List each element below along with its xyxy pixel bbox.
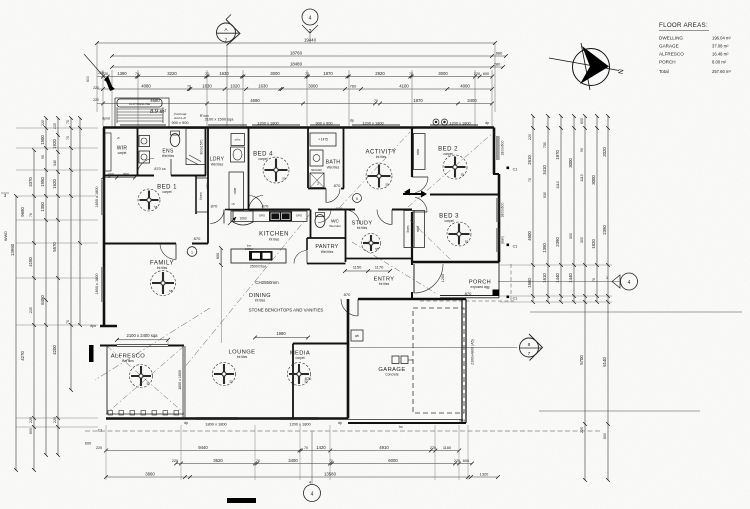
dimension row top segments 2	[103, 88, 492, 90]
svg-text:1980: 1980	[276, 331, 286, 336]
fan media	[288, 363, 311, 386]
svg-text:300: 300	[580, 237, 584, 243]
svg-text:7: 7	[225, 38, 228, 44]
wir shelves	[105, 133, 111, 171]
svg-text:70: 70	[29, 213, 33, 217]
svg-text:900x900: 900x900	[311, 168, 322, 172]
porch pier	[493, 290, 500, 297]
svg-text:870: 870	[334, 183, 341, 188]
svg-text:3620: 3620	[213, 458, 223, 463]
dimension row top 18760	[112, 55, 506, 57]
svg-text:70: 70	[528, 178, 532, 182]
svg-text:70: 70	[374, 99, 378, 103]
svg-text:3400: 3400	[288, 458, 298, 463]
downpipe circles top	[433, 119, 439, 125]
svg-text:1000: 1000	[239, 217, 246, 221]
svg-text:55: 55	[385, 182, 389, 186]
svg-text:dp: dp	[485, 121, 489, 125]
door arc bath	[326, 189, 340, 203]
diagonal activity	[340, 132, 410, 207]
svg-text:1870: 1870	[413, 98, 423, 103]
linen closet	[196, 178, 208, 212]
svg-text:90: 90	[41, 155, 45, 159]
fan bed4	[263, 157, 289, 183]
svg-text:exposed agg: exposed agg	[471, 285, 490, 289]
svg-text:2610: 2610	[527, 155, 532, 165]
right extension lines	[500, 264, 612, 266]
svg-text:3000: 3000	[308, 83, 318, 88]
garage door dashed	[413, 308, 464, 413]
garage walls	[358, 298, 466, 300]
svg-text:1800 x 1800: 1800 x 1800	[95, 187, 99, 208]
door arc pantry	[294, 251, 307, 264]
door arc ens	[137, 159, 154, 176]
svg-text:4: 4	[311, 492, 314, 498]
svg-text:obsd A-4L: obsd A-4L	[174, 116, 187, 120]
circled 5 hall	[353, 194, 362, 203]
wall wir ens bottom	[103, 175, 154, 177]
fan alfresco	[130, 365, 153, 388]
svg-text:4: 4	[628, 280, 631, 286]
svg-text:linen: linen	[199, 192, 203, 199]
door arc bed3	[415, 197, 427, 212]
marker C1 right upper	[507, 167, 510, 170]
wall kitchen west vertical	[225, 209, 249, 211]
wall family step bottom	[100, 325, 117, 327]
window top 1200x1800 activity	[352, 124, 400, 126]
wall bed4 west	[248, 128, 250, 210]
svg-text:13960: 13960	[10, 243, 15, 256]
svg-text:x5: x5	[231, 202, 235, 206]
svg-text:220: 220	[29, 307, 33, 313]
svg-text:600: 600	[580, 118, 584, 124]
wall left exterior	[103, 128, 106, 327]
svg-text:Wet tiles: Wet tiles	[327, 166, 340, 170]
svg-text:13580: 13580	[324, 471, 337, 476]
svg-text:Int tiles: Int tiles	[376, 155, 387, 159]
svg-text:CLOTHESLINE: CLOTHESLINE	[129, 102, 151, 106]
wall lounge media divider	[292, 344, 294, 419]
svg-text:linen: linen	[406, 225, 410, 232]
diagonal bed2	[408, 132, 494, 207]
svg-text:4080: 4080	[141, 83, 151, 88]
alfresco left edge	[106, 346, 108, 415]
clothesline unit	[117, 99, 162, 107]
dim 1150 1170 entry	[345, 270, 390, 272]
svg-text:2020: 2020	[602, 147, 607, 157]
svg-text:dp: dp	[184, 421, 188, 425]
wall bath bottom	[308, 188, 326, 190]
alfresco top wall opening 2100x2400	[100, 345, 117, 347]
svg-text:4000: 4000	[460, 83, 470, 88]
svg-text:19440: 19440	[304, 37, 317, 42]
svg-text:3410: 3410	[542, 165, 547, 175]
svg-text:90: 90	[580, 148, 584, 152]
wall pantry bottom	[307, 263, 346, 265]
svg-text:1: 1	[191, 251, 193, 255]
window left family 1800x1800	[101, 267, 103, 302]
svg-text:680: 680	[496, 50, 503, 55]
svg-text:FLOOR AREAS:: FLOOR AREAS:	[659, 22, 708, 29]
svg-text:220: 220	[172, 459, 178, 463]
wall wc pantry divider	[307, 237, 345, 239]
bottom dashed boundary line	[85, 430, 600, 432]
marker C1 right mid	[507, 244, 510, 247]
diagonal alfresco X1	[107, 346, 184, 413]
svg-text:hc: hc	[399, 425, 403, 429]
door arc hall kitchen	[318, 210, 331, 223]
svg-text:930: 930	[543, 192, 547, 198]
wall ldry hall east	[248, 128, 250, 210]
svg-text:870: 870	[194, 236, 201, 241]
svg-text:220: 220	[98, 71, 104, 75]
left dimension columns	[15, 196, 17, 470]
wall hall west	[207, 128, 209, 244]
door arc activity	[377, 210, 392, 225]
svg-text:6140: 6140	[602, 357, 607, 367]
svg-text:4100: 4100	[399, 83, 409, 88]
alfresco bottom piers	[106, 413, 184, 415]
svg-text:1800x600: 1800x600	[501, 202, 505, 217]
svg-text:2100 x 1500 sqa: 2100 x 1500 sqa	[205, 117, 235, 122]
svg-text:600: 600	[108, 173, 114, 177]
svg-text:340: 340	[53, 160, 57, 166]
window top 2100x1500	[208, 124, 247, 126]
bed3 robe linen	[404, 211, 414, 248]
door arc bed2	[415, 177, 428, 193]
svg-text:18760: 18760	[290, 50, 303, 55]
svg-text:CH2550mm: CH2550mm	[255, 280, 279, 285]
right horizontal line y411	[539, 410, 700, 412]
svg-text:2390: 2390	[555, 237, 560, 247]
svg-text:18480: 18480	[290, 61, 303, 66]
svg-text:Int tiles: Int tiles	[237, 355, 248, 359]
wall study bottom	[346, 258, 413, 260]
svg-text:1390: 1390	[542, 243, 547, 253]
fan study	[362, 234, 381, 253]
right dimension columns	[532, 116, 534, 302]
left extension lines	[16, 127, 98, 129]
svg-text:carpet: carpet	[162, 190, 171, 194]
svg-text:4910: 4910	[379, 445, 389, 450]
window top 1200x1800 bed4	[252, 124, 300, 126]
svg-text:8450: 8450	[40, 295, 45, 305]
svg-text:6000: 6000	[388, 458, 398, 463]
svg-text:3400: 3400	[467, 98, 477, 103]
svg-text:2920: 2920	[375, 71, 385, 76]
window top 1200x1800 bed2	[430, 124, 478, 126]
svg-text:3860: 3860	[145, 471, 155, 476]
wall activity bottom	[330, 209, 355, 211]
svg-text:2: 2	[317, 182, 319, 186]
wall study west	[345, 210, 347, 263]
ldry robe	[229, 172, 244, 210]
wall wc west	[310, 210, 312, 239]
ldry cupboard ohc	[231, 134, 245, 146]
svg-text:oda: oda	[459, 419, 465, 423]
svg-text:4690: 4690	[250, 98, 260, 103]
svg-text:Int tiles: Int tiles	[357, 226, 368, 230]
svg-text:890: 890	[123, 173, 129, 177]
svg-text:1170: 1170	[375, 265, 384, 270]
kitchen island	[231, 249, 286, 263]
svg-text:55: 55	[282, 176, 286, 180]
svg-text:Int tiles: Int tiles	[269, 238, 280, 242]
svg-text:750: 750	[543, 142, 547, 148]
wall ens east	[205, 128, 207, 176]
svg-text:870: 870	[336, 206, 343, 211]
svg-text:1390: 1390	[117, 71, 127, 76]
diagonal bed3	[410, 220, 452, 261]
svg-text:8: 8	[528, 342, 531, 348]
wall right exterior upper	[493, 128, 496, 175]
wall bed4 bath divider	[307, 128, 309, 189]
svg-text:600: 600	[86, 76, 90, 82]
svg-text:Concrete: Concrete	[385, 373, 399, 377]
svg-text:GARAGE: GARAGE	[659, 44, 679, 49]
fan bed3	[447, 222, 471, 246]
entry walls	[411, 262, 413, 265]
svg-text:Wet tiles: Wet tiles	[211, 163, 224, 167]
fan bed1	[138, 189, 160, 211]
svg-text:C1: C1	[98, 429, 103, 433]
dimension row top 18480	[112, 66, 503, 68]
svg-text:870 cs: 870 cs	[154, 167, 165, 171]
svg-text:55: 55	[375, 247, 379, 251]
diagonal entry porch	[352, 242, 437, 294]
section cut line A	[226, 46, 228, 127]
svg-text:70: 70	[256, 459, 260, 463]
svg-text:900 x 900: 900 x 900	[171, 120, 189, 125]
svg-text:1800x600: 1800x600	[501, 140, 505, 155]
wall bed1 bottom	[103, 243, 176, 245]
svg-text:Int tiles: Int tiles	[255, 299, 266, 303]
svg-text:Ext tiles: Ext tiles	[122, 359, 134, 363]
svg-text:GPO: GPO	[296, 214, 303, 218]
grid marker A7 section	[217, 15, 241, 46]
svg-text:3000: 3000	[270, 71, 280, 76]
svg-text:Wet tiles: Wet tiles	[321, 250, 334, 254]
svg-text:870: 870	[211, 204, 218, 209]
wall wir ens divider	[137, 128, 139, 176]
ch dashed line	[184, 214, 310, 368]
svg-text:1800 x 1800: 1800 x 1800	[95, 274, 99, 295]
porch dashed outline	[420, 300, 514, 302]
dimension row top segments 3	[103, 103, 492, 105]
grid marker 4 top	[302, 9, 318, 25]
door arc bed4	[249, 196, 263, 210]
svg-text:1820: 1820	[591, 239, 596, 249]
svg-text:3370: 3370	[28, 177, 33, 187]
study door arc	[346, 210, 360, 224]
svg-text:dpnd: dpnd	[102, 117, 110, 121]
dimension row top 19440	[97, 42, 495, 44]
svg-text:9690: 9690	[20, 207, 25, 217]
wall bed1 east linen	[195, 176, 197, 215]
fan family	[151, 271, 176, 296]
svg-text:2500 b'bar: 2500 b'bar	[250, 265, 267, 269]
bed4 robe	[310, 133, 336, 146]
svg-text:1800 x 1800: 1800 x 1800	[178, 370, 182, 390]
svg-text:4600: 4600	[527, 231, 532, 241]
svg-text:800: 800	[216, 253, 220, 259]
ens fixtures	[139, 136, 150, 147]
circled 1 family	[187, 247, 197, 257]
svg-text:WWD: WWD	[4, 231, 8, 241]
svg-text:600: 600	[85, 442, 91, 446]
fan lounge	[213, 363, 236, 386]
diagonal alfresco X2	[107, 346, 184, 413]
svg-text:220: 220	[528, 134, 532, 140]
wall bath activity divider	[343, 128, 345, 189]
window top 900x900 ens	[120, 124, 166, 126]
svg-text:1800 x 1800: 1800 x 1800	[205, 422, 227, 427]
svg-text:1020: 1020	[230, 83, 240, 88]
svg-text:1: 1	[606, 276, 608, 280]
kitchen bench row	[231, 211, 307, 222]
svg-text:900x1570: 900x1570	[200, 139, 204, 154]
top extension lines	[102, 70, 104, 126]
svg-text:1630: 1630	[258, 83, 268, 88]
wh unit	[351, 330, 363, 341]
svg-text:3000: 3000	[568, 158, 573, 168]
bath fixtures	[310, 150, 323, 166]
svg-text:4150: 4150	[28, 257, 33, 267]
svg-text:1350: 1350	[40, 202, 45, 212]
wall bed2 bed3 divider	[430, 194, 499, 196]
svg-text:760: 760	[350, 83, 357, 88]
svg-text:1200: 1200	[441, 274, 445, 282]
svg-text:870: 870	[465, 291, 472, 296]
svg-text:ALFRESCO: ALFRESCO	[659, 52, 684, 57]
door arc hall bottom	[210, 210, 224, 224]
svg-text:55: 55	[229, 379, 233, 383]
wall media garage divider	[347, 299, 349, 419]
wall top exterior	[103, 126, 494, 129]
svg-text:+ 1475: + 1475	[318, 138, 328, 142]
svg-text:870: 870	[206, 183, 210, 189]
svg-text:1150: 1150	[353, 265, 362, 270]
svg-text:55: 55	[461, 173, 465, 177]
svg-text:9440: 9440	[198, 445, 208, 450]
grid marker 4 right	[498, 281, 620, 283]
svg-text:Wet tiles: Wet tiles	[329, 224, 341, 228]
scale bar	[227, 498, 256, 503]
svg-text:1200 x 1800: 1200 x 1800	[257, 121, 279, 126]
grid marker 87 garage line	[350, 347, 517, 349]
svg-text:C1: C1	[513, 245, 518, 249]
svg-text:1870: 1870	[323, 71, 333, 76]
svg-text:1630: 1630	[219, 71, 229, 76]
svg-text:PORCH: PORCH	[659, 60, 676, 65]
bottom dimension row 3	[106, 476, 498, 478]
wc toilet	[315, 215, 325, 228]
svg-text:carpet: carpet	[118, 151, 127, 155]
svg-text:600: 600	[483, 72, 489, 76]
bed2 robe	[414, 134, 426, 170]
svg-text:1500: 1500	[40, 135, 45, 145]
svg-text:220: 220	[96, 446, 102, 450]
svg-text:3220: 3220	[167, 71, 177, 76]
marker C1 porch	[507, 296, 510, 299]
svg-text:5: 5	[356, 197, 358, 201]
svg-text:wh: wh	[355, 334, 359, 338]
window bottom 1200x1800	[280, 416, 318, 418]
svg-text:70: 70	[135, 72, 139, 76]
svg-text:4270: 4270	[20, 351, 25, 361]
grid marker 4 bottom	[311, 431, 313, 484]
right horizontal line y312	[530, 311, 742, 313]
svg-text:C1: C1	[513, 297, 518, 301]
svg-text:1200 x 1800: 1200 x 1800	[289, 422, 311, 427]
svg-text:dpo: dpo	[90, 324, 96, 328]
svg-text:55: 55	[169, 289, 173, 293]
svg-text:W mm: W mm	[199, 114, 208, 118]
svg-text:1200 x 1800: 1200 x 1800	[449, 121, 471, 126]
svg-text:C1: C1	[513, 168, 518, 172]
svg-text:300: 300	[569, 233, 573, 239]
svg-text:196.04 m²: 196.04 m²	[712, 36, 731, 41]
svg-text:dp: dp	[350, 119, 354, 123]
svg-text:220: 220	[580, 427, 584, 433]
svg-text:870: 870	[262, 204, 269, 209]
svg-text:1420: 1420	[316, 445, 326, 450]
svg-text:220: 220	[41, 120, 45, 126]
ldry trough	[231, 147, 245, 162]
kitchen corner pantry	[233, 211, 253, 225]
svg-text:Total: Total	[659, 69, 669, 74]
svg-text:2100x4800 (A5): 2100x4800 (A5)	[471, 339, 475, 365]
svg-text:55: 55	[304, 379, 308, 383]
wall bed3 bottom porch top	[412, 261, 499, 263]
windows right 1800x600	[496, 136, 498, 160]
bottom extension lines	[105, 425, 107, 480]
svg-text:carpet: carpet	[258, 157, 267, 161]
ens shower	[186, 129, 205, 165]
svg-text:3000: 3000	[591, 175, 596, 185]
svg-text:1630: 1630	[202, 83, 212, 88]
svg-text:3000: 3000	[438, 71, 448, 76]
svg-text:70: 70	[304, 446, 308, 450]
svg-text:1200 x 1800: 1200 x 1800	[362, 121, 384, 126]
wall pantry west	[306, 238, 308, 250]
wall kitchen wc study top	[249, 209, 311, 211]
svg-text:carpet: carpet	[295, 356, 304, 360]
svg-text:870: 870	[344, 292, 351, 297]
svg-text:37.08 m²: 37.08 m²	[712, 44, 729, 49]
svg-text:carpet: carpet	[444, 219, 453, 223]
svg-text:1620: 1620	[52, 179, 57, 189]
porch slab edge	[440, 295, 499, 297]
dimension row top segments 1	[103, 76, 492, 78]
svg-text:1950: 1950	[40, 177, 45, 187]
svg-text:4200: 4200	[52, 345, 57, 355]
svg-text:2390: 2390	[602, 225, 607, 235]
alfresco lounge window	[182, 346, 184, 418]
svg-text:STONE BENCHTOPS AND VANITIES: STONE BENCHTOPS AND VANITIES	[249, 308, 324, 313]
svg-text:(dwn): (dwn)	[501, 236, 505, 244]
svg-text:8.00 m²: 8.00 m²	[712, 60, 727, 65]
svg-text:600: 600	[603, 433, 607, 439]
diagonal roof line long	[221, 248, 223, 343]
svg-text:55: 55	[154, 205, 158, 209]
svg-text:robe: robe	[416, 149, 420, 156]
svg-text:70: 70	[66, 120, 70, 124]
svg-text:dp: dp	[338, 421, 342, 425]
svg-text:Int tiles: Int tiles	[379, 282, 390, 286]
north compass	[549, 43, 619, 90]
svg-text:8.9 m²: 8.9 m²	[150, 108, 166, 115]
